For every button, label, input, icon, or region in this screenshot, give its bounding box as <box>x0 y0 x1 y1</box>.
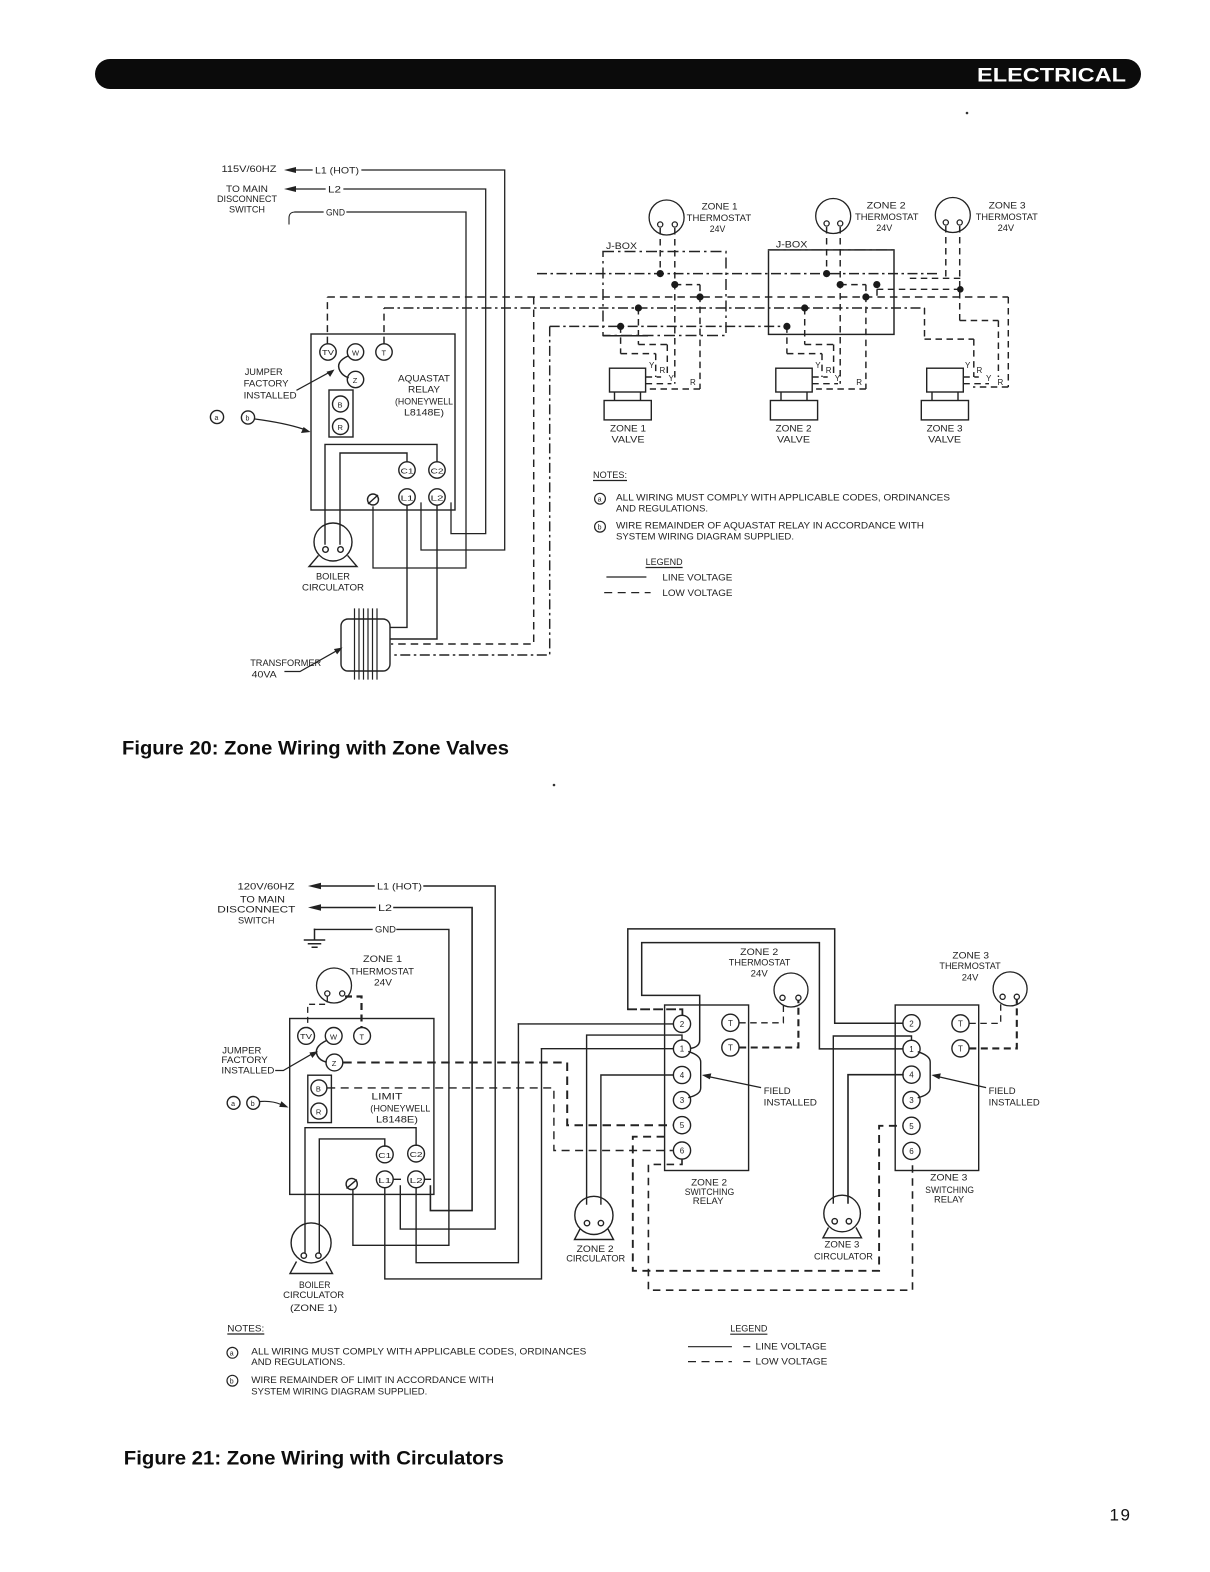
svg-text:L2: L2 <box>431 496 444 503</box>
aquastat relay box <box>311 334 455 510</box>
svg-text:R: R <box>690 378 696 387</box>
svg-text:C1: C1 <box>378 1153 391 1160</box>
junction dots zone2 <box>823 270 830 277</box>
thermostat1 R jog to B2 and valve1 R riser <box>650 285 700 389</box>
svg-text:CIRCULATOR: CIRCULATOR <box>302 583 364 594</box>
bus B3 <box>384 307 925 309</box>
svg-text:THERMOSTAT: THERMOSTAT <box>350 967 414 978</box>
svg-text:AQUASTAT: AQUASTAT <box>398 374 450 385</box>
bus B4 <box>550 325 787 327</box>
terminal L2 <box>429 489 445 505</box>
wire L2 feed into relay2 terminal 2 <box>518 1023 673 1025</box>
wire L1 power fig21 <box>319 886 495 1229</box>
svg-text:Y: Y <box>649 361 655 370</box>
svg-text:INSTALLED: INSTALLED <box>764 1098 817 1109</box>
svg-text:SYSTEM WIRING DIAGRAM SUPPL: SYSTEM WIRING DIAGRAM SUPPLIED. <box>251 1386 427 1397</box>
svg-text:b: b <box>251 1101 255 1108</box>
terminal TV <box>298 1028 315 1045</box>
terminal W <box>347 344 363 360</box>
svg-text:NOTES:: NOTES: <box>227 1324 264 1335</box>
jumper arc W to Z <box>339 356 348 378</box>
relay3 terminal 4 <box>903 1066 920 1083</box>
svg-text:WIRE REMAINDER OF LIMIT IN: WIRE REMAINDER OF LIMIT IN ACCORDANCE WI… <box>251 1375 494 1386</box>
svg-text:TRANSFORMER: TRANSFORMER <box>250 658 321 669</box>
terminal Z <box>347 371 363 387</box>
zone2 circulator <box>575 1196 613 1234</box>
fig20 relay texts <box>215 349 454 681</box>
wire Z to zone2 relay 5 <box>343 1063 673 1126</box>
wire L1 terminal to transformer <box>391 505 407 627</box>
svg-text:ZONE 3: ZONE 3 <box>952 951 989 962</box>
svg-text:Y: Y <box>835 374 841 383</box>
svg-text:J-BOX: J-BOX <box>606 241 638 252</box>
svg-text:VALVE: VALVE <box>612 435 645 446</box>
svg-text:AND REGULATIONS.: AND REGULATIONS. <box>616 504 708 515</box>
gnd stub hook fig20 <box>289 212 295 224</box>
arrow L2 feed fig21 <box>308 904 321 910</box>
svg-text:L8148E): L8148E) <box>404 408 444 419</box>
svg-text:6: 6 <box>680 1147 685 1156</box>
thermostat3 left drop <box>905 226 960 278</box>
svg-text:T: T <box>958 1019 963 1028</box>
zone3 circulator <box>824 1195 861 1232</box>
j-box 2 top dashes overlay <box>769 249 895 251</box>
svg-text:a: a <box>598 497 602 504</box>
thermostat1 right drop to valve1 Y <box>674 228 676 384</box>
zone 2 thermostat <box>816 199 851 234</box>
svg-text:ZONE 3: ZONE 3 <box>927 424 963 435</box>
svg-text:LINE VOLTAGE: LINE VOLTAGE <box>662 573 732 584</box>
relay2 terminal 6 <box>673 1142 690 1159</box>
note circle a fig21 <box>227 1347 238 1358</box>
arrow L1 feed <box>284 167 296 173</box>
svg-text:ZONE 2: ZONE 2 <box>776 424 812 435</box>
thermostat1 right lead to T <box>345 997 362 1028</box>
svg-text:T: T <box>728 1019 733 1028</box>
transformer body <box>341 619 390 671</box>
svg-text:INSTALLED: INSTALLED <box>221 1066 274 1077</box>
terminal C1 <box>376 1146 393 1163</box>
Y R wire letters <box>649 361 1004 387</box>
svg-text:a: a <box>230 1351 234 1358</box>
zone3 switching relay box <box>895 1005 979 1171</box>
svg-text:a: a <box>231 1101 235 1108</box>
terminal T <box>354 1028 371 1045</box>
relay3 terminal 5 <box>903 1117 920 1134</box>
wire L2 to relays run <box>416 1024 518 1263</box>
note circle b fig21 <box>227 1375 238 1386</box>
zone2 valve R1 riser from B3 <box>805 308 834 377</box>
note ref circle b fig21 <box>247 1097 260 1110</box>
zone2 switching relay box <box>665 1005 749 1171</box>
zone1 thermostat fig21 <box>317 968 352 1003</box>
svg-text:W: W <box>330 1033 338 1042</box>
L1 daisy loop to relay3 terminal 1 <box>642 943 903 1049</box>
zone 1 thermostat <box>649 200 684 235</box>
underline NOTES fig21 <box>227 1333 264 1335</box>
svg-text:4: 4 <box>680 1071 685 1080</box>
svg-text:ZONE 2: ZONE 2 <box>740 947 778 958</box>
zone 2 valve body <box>776 368 812 392</box>
svg-text:JUMPER: JUMPER <box>245 367 283 378</box>
svg-text:SYSTEM WIRING DIAGRAM SUPPL: SYSTEM WIRING DIAGRAM SUPPLIED. <box>616 532 794 543</box>
svg-text:DISCONNECT: DISCONNECT <box>217 905 295 916</box>
thermostat1 left lead to TV <box>308 997 328 1028</box>
transformer label arrow <box>285 650 338 672</box>
svg-text:VALVE: VALVE <box>777 435 810 446</box>
terminal B <box>311 1080 327 1096</box>
legend line voltage sample fig21 <box>688 1346 750 1348</box>
svg-text:C1: C1 <box>401 469 414 476</box>
wire GND fig21 <box>315 929 449 1245</box>
relay3 T to thermostat3 left <box>969 1000 1000 1024</box>
relay2 T to thermostat2 right <box>739 1001 798 1048</box>
zone2 thermostat fig21 <box>774 973 808 1007</box>
note ref circle a <box>210 410 223 423</box>
relay2 terminal numbers <box>680 1019 733 1156</box>
svg-text:T: T <box>360 1033 365 1042</box>
svg-text:LINE VOLTAGE: LINE VOLTAGE <box>756 1342 827 1353</box>
bus B1 24V hot <box>537 273 939 275</box>
arrow from b to relay box <box>255 419 303 429</box>
wire L1 to relays run <box>385 1049 542 1279</box>
relay2 terminal 2 <box>673 1015 690 1032</box>
svg-text:CIRCULATOR: CIRCULATOR <box>283 1290 344 1301</box>
field installed arrow zone3 <box>938 1077 986 1088</box>
svg-text:2: 2 <box>680 1020 685 1029</box>
zone 3 thermostat <box>935 198 970 233</box>
svg-text:THERMOSTAT: THERMOSTAT <box>939 961 1000 972</box>
junction dots zone3 <box>873 281 880 288</box>
bus B2 <box>327 296 1008 298</box>
note circle a <box>595 493 606 504</box>
ground screw <box>368 494 379 505</box>
riser transformer secondary 2 <box>391 326 550 655</box>
boiler circulator <box>314 523 352 561</box>
header banner <box>95 59 1141 89</box>
svg-text:ZONE 3: ZONE 3 <box>989 201 1026 212</box>
wire C1 to boiler circulator right fig21 <box>319 1139 385 1253</box>
svg-text:R: R <box>826 366 832 375</box>
arrow L1 feed fig21 <box>308 883 321 889</box>
thermostat2 R jog to B2 and valve2 R riser <box>816 285 866 389</box>
svg-text:FACTORY: FACTORY <box>221 1055 268 1066</box>
svg-text:L1: L1 <box>401 496 414 503</box>
scan speck 2 <box>553 784 556 787</box>
svg-text:FACTORY: FACTORY <box>244 379 290 390</box>
relay3 terminal 2 <box>903 1015 920 1032</box>
svg-text:LOW VOLTAGE: LOW VOLTAGE <box>756 1357 828 1368</box>
svg-text:Y: Y <box>986 374 992 383</box>
legend low voltage sample <box>604 592 650 594</box>
svg-text:RELAY: RELAY <box>934 1195 965 1206</box>
svg-text:L1 (HOT): L1 (HOT) <box>315 166 359 177</box>
svg-text:T: T <box>382 349 387 358</box>
zone3 valve Y1 riser from B3 <box>925 308 974 377</box>
rail to relay3 terminal 6 <box>648 1159 912 1290</box>
terminal R <box>333 419 349 435</box>
terminal W <box>325 1028 342 1045</box>
svg-text:a: a <box>215 415 219 422</box>
svg-text:WIRE REMAINDER OF AQUASTAT: WIRE REMAINDER OF AQUASTAT RELAY IN ACCO… <box>616 521 924 532</box>
arrow from b to box fig21 <box>260 1101 281 1104</box>
wire L1 hook to power <box>393 1178 400 1180</box>
field installed arrow zone2 <box>708 1077 761 1088</box>
svg-text:T: T <box>958 1044 963 1053</box>
svg-text:2: 2 <box>909 1019 914 1028</box>
B/R terminal block <box>329 390 353 437</box>
svg-text:VALVE: VALVE <box>928 435 961 446</box>
svg-text:RELAY: RELAY <box>408 385 441 396</box>
B/R terminal block <box>308 1075 332 1122</box>
svg-text:DISCONNECT: DISCONNECT <box>217 194 277 205</box>
svg-text:Z: Z <box>332 1059 337 1068</box>
wire L2 hook to power <box>425 1178 431 1180</box>
terminal L1 <box>376 1171 393 1188</box>
jumper arc W-Z fig21 <box>316 1041 326 1063</box>
underline LEGEND <box>646 567 683 569</box>
zone2 valve Y1 riser from B4 <box>787 326 822 377</box>
svg-text:B: B <box>316 1085 321 1094</box>
boiler circulator zone1 fig21 <box>291 1223 331 1263</box>
thermostat2 right drop to valve2 Y <box>839 227 841 384</box>
svg-text:R: R <box>977 366 983 375</box>
svg-text:FIELD: FIELD <box>764 1086 791 1097</box>
valve1 terminal stubs <box>646 377 672 384</box>
svg-text:R: R <box>998 378 1004 387</box>
jumper label arrow <box>297 372 330 390</box>
svg-text:R: R <box>316 1108 322 1117</box>
wire GND fig20 <box>295 212 466 568</box>
svg-text:ZONE 3: ZONE 3 <box>930 1173 967 1184</box>
wire C2 to boiler circulator left <box>325 444 437 544</box>
svg-text:Y: Y <box>815 361 821 370</box>
wire relay3 terminal1 to zone3 circulator left <box>833 1036 911 1203</box>
svg-text:LOW VOLTAGE: LOW VOLTAGE <box>662 588 732 599</box>
svg-text:L2: L2 <box>378 903 392 914</box>
relay2 terminal 1 <box>673 1040 690 1057</box>
svg-text:L2: L2 <box>410 1178 423 1185</box>
wire C1 to boiler circulator right <box>340 453 407 544</box>
svg-text:1: 1 <box>680 1045 685 1054</box>
svg-text:THERMOSTAT: THERMOSTAT <box>687 213 752 224</box>
scan speck 1 <box>966 112 969 115</box>
riser transformer secondary 1 <box>391 297 534 644</box>
relay2 terminal T lower <box>722 1039 739 1056</box>
jumper arrow fig21 <box>276 1055 311 1071</box>
svg-text:RELAY: RELAY <box>693 1196 724 1207</box>
svg-text:CIRCULATOR: CIRCULATOR <box>566 1254 625 1265</box>
relay3 terminal numbers <box>909 1019 963 1156</box>
relay2 terminal 4 <box>673 1066 690 1083</box>
svg-text:24V: 24V <box>751 969 769 980</box>
j-box 1 bottom continuation <box>603 335 648 337</box>
relay2 jumper bracket 1-3 <box>689 1052 701 1098</box>
svg-text:THERMOSTAT: THERMOSTAT <box>729 958 791 969</box>
svg-text:24V: 24V <box>876 223 893 234</box>
relay3 T to thermostat3 right <box>969 1000 1017 1049</box>
wire relay2 terminal4 to zone2 circulator right <box>601 1075 673 1204</box>
svg-text:ZONE 2: ZONE 2 <box>867 201 906 212</box>
rail to relay3 terminal 5 <box>633 1126 903 1271</box>
svg-text:THERMOSTAT: THERMOSTAT <box>976 212 1038 223</box>
zone1 valve R1 riser from B3 <box>638 308 667 377</box>
wire C2 to boiler circulator left fig21 <box>305 1128 416 1253</box>
relay2 terminal 3 <box>673 1092 690 1109</box>
terminal Z <box>326 1054 343 1071</box>
zone1 valve Y1 riser from B4 <box>621 326 656 377</box>
svg-text:115V/60HZ: 115V/60HZ <box>222 164 277 175</box>
svg-text:Figure 20: Zone Wiring with Zo: Figure 20: Zone Wiring with Zone Valves <box>122 738 509 760</box>
legend line voltage sample <box>606 576 646 578</box>
j-box 1 outline <box>603 252 726 336</box>
svg-text:ZONE 3: ZONE 3 <box>825 1240 860 1251</box>
wire L2 power fig20 <box>294 189 486 534</box>
j-box 2 outline <box>769 250 895 335</box>
note ref circle b <box>241 411 254 424</box>
ground screw fig21 <box>346 1178 357 1189</box>
svg-text:ZONE 1: ZONE 1 <box>610 424 646 435</box>
svg-text:1: 1 <box>909 1045 914 1054</box>
fig20 zone labels <box>606 201 1038 446</box>
relay3 terminal T lower <box>952 1040 969 1057</box>
svg-text:ALL WIRING MUST COMPLY WIT: ALL WIRING MUST COMPLY WITH APPLICABLE C… <box>616 493 950 504</box>
svg-text:5: 5 <box>909 1122 914 1131</box>
svg-text:TV: TV <box>322 350 334 357</box>
svg-text:LEGEND: LEGEND <box>646 557 683 568</box>
svg-text:AND REGULATIONS.: AND REGULATIONS. <box>251 1357 345 1368</box>
terminal T <box>376 344 392 360</box>
relay3 jumper bracket 1-3 <box>918 1052 930 1098</box>
svg-text:24V: 24V <box>998 223 1015 234</box>
svg-text:SWITCH: SWITCH <box>238 916 275 927</box>
svg-text:SWITCH: SWITCH <box>229 205 265 216</box>
svg-text:19: 19 <box>1110 1506 1132 1525</box>
wire L2 terminal to transformer <box>391 505 437 639</box>
zone 1 valve body <box>610 368 646 392</box>
svg-text:b: b <box>598 525 602 532</box>
svg-text:6: 6 <box>909 1147 914 1156</box>
svg-text:C2: C2 <box>410 1152 423 1159</box>
svg-text:(ZONE 1): (ZONE 1) <box>290 1303 337 1314</box>
relay3 terminal T upper <box>952 1015 969 1032</box>
svg-text:Figure 21: Zone Wiring with Ci: Figure 21: Zone Wiring with Circulators <box>124 1448 504 1470</box>
terminal L2 <box>408 1171 425 1188</box>
svg-text:40VA: 40VA <box>252 670 278 681</box>
svg-text:24V: 24V <box>374 978 393 989</box>
svg-text:ELECTRICAL: ELECTRICAL <box>977 65 1126 87</box>
svg-text:LIMIT: LIMIT <box>371 1092 402 1103</box>
relay2 terminal T upper <box>722 1014 739 1031</box>
svg-text:ZONE 1: ZONE 1 <box>363 954 402 965</box>
relay3 terminal 6 <box>903 1142 920 1159</box>
svg-text:GND: GND <box>375 925 396 936</box>
svg-text:FIELD: FIELD <box>989 1086 1016 1097</box>
svg-text:GND: GND <box>326 208 345 219</box>
svg-text:ALL WIRING MUST COMPLY WIT: ALL WIRING MUST COMPLY WITH APPLICABLE C… <box>251 1347 586 1358</box>
svg-text:L1: L1 <box>378 1178 391 1185</box>
terminal L1 <box>399 489 415 505</box>
thermostat1 left drop to B1 <box>659 228 661 274</box>
terminal B <box>333 396 349 412</box>
relay3 terminal 1 <box>903 1040 920 1057</box>
valve2 terminal stubs <box>812 377 838 384</box>
svg-text:3: 3 <box>909 1096 914 1105</box>
svg-text:BOILER: BOILER <box>316 572 350 583</box>
wire TV terminal riser to bus B2 <box>326 297 328 344</box>
svg-text:4: 4 <box>909 1071 914 1080</box>
svg-text:W: W <box>352 349 360 358</box>
L2 daisy loop to relay3 terminal 2 <box>628 929 903 1023</box>
svg-text:(HONEYWELL: (HONEYWELL <box>370 1104 430 1115</box>
terminal TV <box>320 344 336 360</box>
svg-text:L2: L2 <box>328 185 341 196</box>
svg-text:TV: TV <box>300 1034 312 1041</box>
arrow L2 feed <box>284 186 296 192</box>
svg-text:Y: Y <box>669 374 675 383</box>
wire B to zone2 relay 6 <box>327 1088 673 1151</box>
zone3 valve R2 riser from B2 <box>973 297 1008 387</box>
terminal C1 <box>399 462 415 478</box>
svg-text:ZONE 1: ZONE 1 <box>702 202 738 213</box>
thermostat3 right drop <box>877 226 998 377</box>
svg-text:R: R <box>660 366 666 375</box>
L2 loop dashed tail into terminal 2 <box>628 1009 683 1015</box>
wire T terminal riser to bus B3 <box>383 308 385 344</box>
svg-text:INSTALLED: INSTALLED <box>244 391 297 402</box>
svg-text:(HONEYWELL: (HONEYWELL <box>395 397 453 408</box>
legend low voltage sample fig21 <box>688 1361 732 1363</box>
svg-text:b: b <box>230 1378 234 1385</box>
wire L1 feed into relay2 terminal 1 <box>542 1048 674 1050</box>
underline NOTES <box>593 480 627 482</box>
limit relay box fig21 <box>290 1019 434 1195</box>
relay2 T to thermostat2 left <box>739 1001 783 1023</box>
svg-text:24V: 24V <box>962 973 979 984</box>
terminal C2 <box>429 462 445 478</box>
svg-text:THERMOSTAT: THERMOSTAT <box>855 212 919 223</box>
zone 3 valve body <box>927 368 964 392</box>
svg-text:5: 5 <box>680 1121 685 1130</box>
ground symbol <box>305 929 325 947</box>
thermostat2 left drop to B1 <box>826 227 828 274</box>
svg-text:C2: C2 <box>431 469 444 476</box>
wire relay3 terminal4 to zone3 circulator right <box>848 1075 903 1203</box>
svg-text:R: R <box>856 378 862 387</box>
relay3 terminal 3 <box>903 1092 920 1109</box>
junction dots zone1 <box>657 270 664 277</box>
svg-text:NOTES:: NOTES: <box>593 470 627 481</box>
transformer core stripes <box>355 609 378 679</box>
svg-text:INSTALLED: INSTALLED <box>989 1098 1040 1109</box>
underline LEGEND fig21 <box>730 1333 767 1335</box>
valve3 terminal stubs <box>963 377 989 384</box>
wire L1 (HOT) power fig20 <box>294 170 505 550</box>
wire relay2 terminal1 to zone2 circulator left <box>587 1035 682 1204</box>
relay2 terminal 5 <box>673 1117 690 1134</box>
svg-text:L8148E): L8148E) <box>376 1115 418 1126</box>
svg-text:24V: 24V <box>710 224 726 235</box>
svg-text:b: b <box>246 416 250 423</box>
svg-text:Y: Y <box>965 361 971 370</box>
terminal R <box>311 1103 327 1119</box>
svg-text:R: R <box>338 423 344 432</box>
svg-text:LEGEND: LEGEND <box>730 1324 767 1335</box>
svg-text:L1 (HOT): L1 (HOT) <box>377 882 422 893</box>
svg-text:Z: Z <box>353 376 358 385</box>
terminal C2 <box>408 1145 425 1162</box>
note ref circle a fig21 <box>227 1097 240 1110</box>
